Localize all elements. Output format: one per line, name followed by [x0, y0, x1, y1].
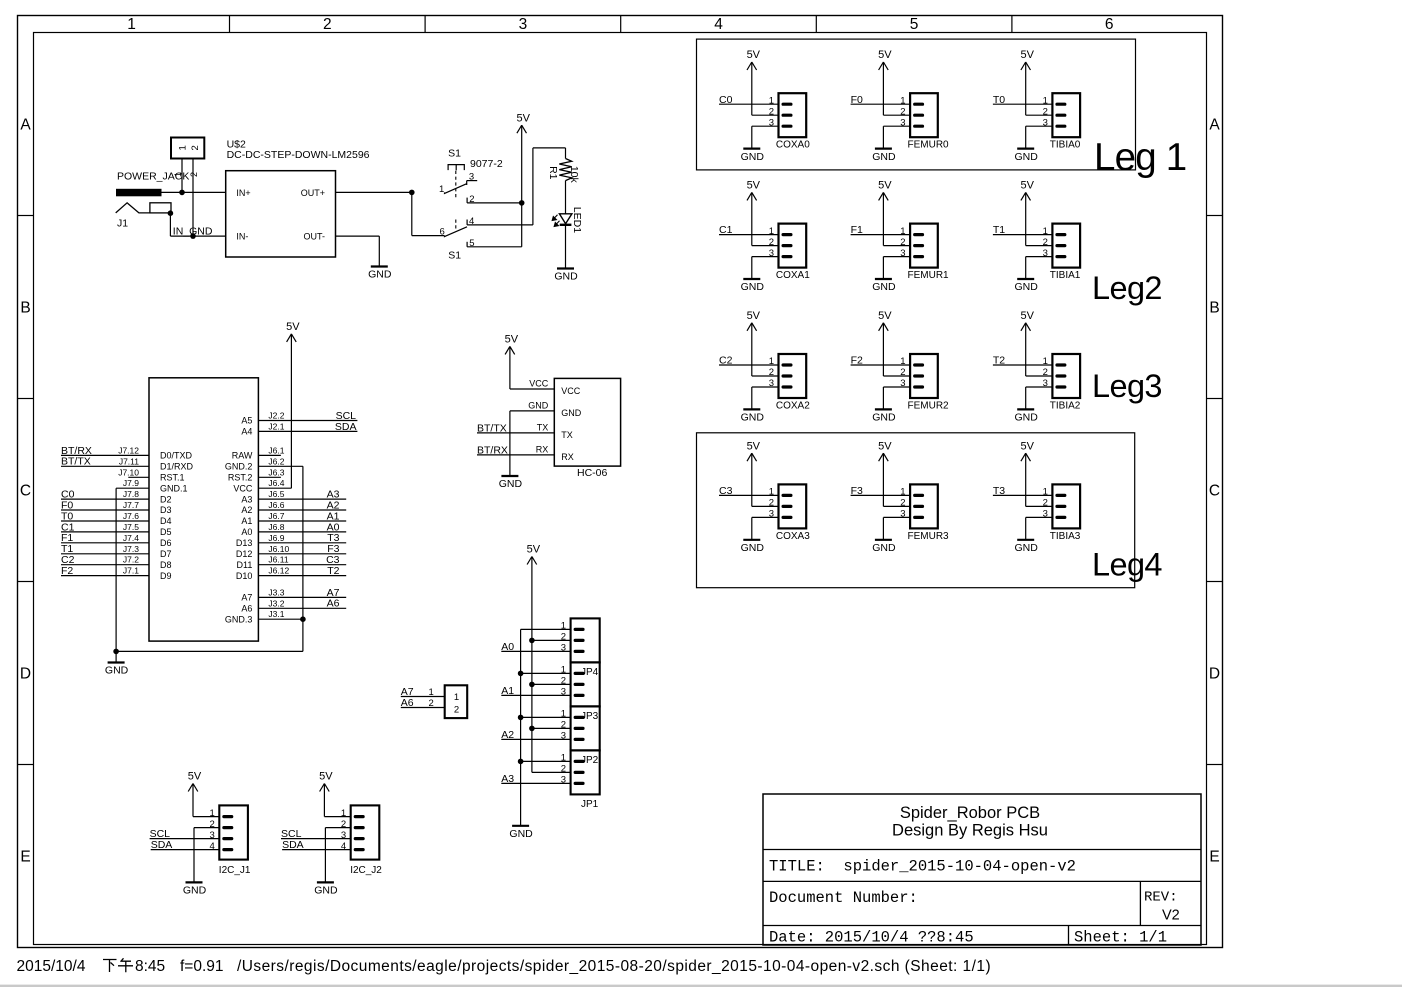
wire jack sleeve down: [169, 213, 171, 236]
svg-text:GND: GND: [1015, 151, 1039, 163]
svg-text:J7.4: J7.4: [123, 533, 139, 543]
5V power symbol: [516, 112, 530, 133]
JP ground rail: [520, 629, 522, 825]
5V power symbol: [1020, 180, 1034, 201]
svg-text:5V: 5V: [505, 334, 519, 346]
wire FEMUR3 pin3 to ground: [883, 516, 910, 518]
wire OUT+ branch down to switch pin6: [411, 192, 413, 235]
5V power symbol: [1020, 49, 1034, 70]
svg-text:SDA: SDA: [282, 839, 304, 851]
svg-text:J7.12: J7.12: [118, 445, 139, 455]
svg-text:V2: V2: [1162, 908, 1180, 924]
wire X1 pin1 to IN+ net: [181, 159, 183, 193]
wire RAW stub: [258, 454, 281, 456]
svg-text:5V: 5V: [516, 112, 530, 124]
MCU pin J6.1 (RAW): [232, 445, 285, 460]
wire A1: [258, 520, 346, 522]
svg-text:A6: A6: [401, 697, 414, 709]
wire OUT- to ground: [336, 235, 380, 237]
svg-text:Leg2: Leg2: [1092, 270, 1162, 306]
HC-06 pin GND: [528, 400, 582, 418]
svg-text:D10: D10: [236, 571, 253, 581]
MCU pin J7.12 (D0/TXD): [118, 445, 192, 460]
wire OUT+: [336, 191, 412, 193]
5V power symbol: [747, 49, 761, 70]
connector COXA2 servo header: [769, 354, 811, 412]
svg-text:F2: F2: [61, 565, 73, 577]
junction jack sleeve: [168, 210, 174, 216]
svg-text:J6.11: J6.11: [268, 555, 288, 565]
svg-text:TX: TX: [561, 430, 573, 440]
5V power symbol: [747, 440, 761, 461]
wire SCL: [258, 420, 357, 422]
wire switch pin5 to 5V rail bottom: [467, 246, 522, 248]
wire RST.1 stub: [128, 476, 149, 478]
svg-text:5V: 5V: [527, 544, 541, 556]
MCU pin J7.11 (D1/RXD): [119, 456, 194, 471]
svg-text:BT/TX: BT/TX: [61, 456, 91, 468]
MCU pin J3.3 (A7): [241, 587, 284, 602]
svg-text:2: 2: [454, 704, 459, 715]
svg-text:COXA0: COXA0: [776, 140, 810, 151]
wire IN_GND: [170, 235, 225, 237]
5V power symbol: [527, 544, 541, 565]
connector COXA3 servo header: [769, 484, 811, 542]
svg-text:J6.5: J6.5: [268, 489, 284, 499]
svg-text:S1: S1: [448, 250, 461, 262]
wire TIBIA1 pin3 to ground: [1026, 256, 1053, 258]
svg-text:5V: 5V: [878, 180, 892, 192]
connector X1 2-pin battery header: [171, 138, 204, 159]
wire BT/TX: [61, 465, 149, 467]
wire T1 to TIBIA1 pin1: [993, 234, 1053, 236]
I2C_J2 5V power: [323, 784, 325, 817]
MCU pin J7.7 (D3): [123, 500, 172, 515]
svg-text:RX: RX: [536, 444, 549, 454]
MCU pin J7.6 (D4): [123, 511, 172, 526]
wire jack tip to IN+: [162, 191, 226, 193]
svg-text:J2.1: J2.1: [268, 421, 284, 431]
wire FEMUR2 pin3 to ground: [883, 386, 910, 388]
wire FEMUR0 pin2 to 5V: [883, 114, 910, 116]
wire A3: [258, 498, 346, 500]
wire C2: [61, 564, 149, 566]
svg-text:5V: 5V: [878, 440, 892, 452]
MCU pin J6.2 (GND.2): [225, 456, 285, 471]
svg-text:F0: F0: [851, 94, 863, 106]
svg-text:5V: 5V: [188, 771, 202, 783]
svg-text:BT/TX: BT/TX: [477, 422, 507, 434]
junction MCU ground: [113, 649, 119, 655]
svg-text:9077-2: 9077-2: [470, 158, 503, 170]
wire I2C_J2 pin2 to ground: [325, 827, 350, 829]
ground: [741, 149, 765, 163]
title block: [763, 794, 1201, 947]
wire T1: [61, 553, 149, 555]
wire JP1 pin1 to ground rail: [521, 760, 571, 762]
5V power symbol: [1020, 440, 1034, 461]
MCU pin J7.8 (D2): [123, 489, 172, 504]
MCU pin J7.9 (GND.1): [123, 478, 188, 493]
svg-text:T0: T0: [993, 94, 1005, 106]
wire TIBIA1 pin2 to 5V: [1026, 245, 1053, 247]
svg-text:T1: T1: [993, 224, 1005, 236]
MCU pin J6.11 (D11): [237, 555, 289, 570]
svg-text:C0: C0: [719, 94, 733, 106]
svg-text:Leg 1: Leg 1: [1094, 136, 1186, 179]
svg-text:2: 2: [189, 172, 199, 177]
connector COXA1 servo header: [769, 224, 811, 282]
svg-text:A: A: [20, 117, 31, 134]
MCU pin J6.7 (A1): [241, 511, 284, 526]
svg-text:D13: D13: [236, 538, 253, 548]
connector JP4: [561, 618, 600, 678]
LED LED1: [552, 207, 583, 233]
connector JP3: [561, 662, 600, 722]
wire GND.1: [116, 487, 149, 489]
wire C3 to COXA3 pin1: [719, 494, 779, 496]
svg-text:5V: 5V: [747, 180, 761, 192]
svg-text:D4: D4: [160, 516, 172, 526]
5V power symbol: [286, 321, 300, 342]
5V power symbol: [319, 771, 333, 792]
svg-text:4: 4: [469, 216, 474, 227]
junction OUT+: [409, 190, 415, 196]
wire COXA2 pin3 to ground: [752, 386, 779, 388]
wire COXA1 pin3 to ground: [752, 256, 779, 258]
svg-text:5V: 5V: [747, 310, 761, 322]
svg-text:2: 2: [190, 145, 201, 150]
svg-text:5V: 5V: [878, 49, 892, 61]
5V power symbol: [878, 49, 892, 70]
svg-text:RAW: RAW: [232, 451, 253, 461]
svg-text:GND: GND: [554, 271, 578, 283]
svg-text:5V: 5V: [1020, 180, 1034, 192]
JP 5V rail: [531, 557, 533, 773]
connector JP1: [561, 750, 600, 810]
svg-text:J7.5: J7.5: [123, 522, 139, 532]
ground: [872, 409, 896, 423]
wire A2: [258, 509, 346, 511]
svg-text:SDA: SDA: [335, 421, 357, 433]
svg-text:GND: GND: [872, 151, 896, 163]
svg-text:5V: 5V: [747, 440, 761, 452]
svg-text:5V: 5V: [319, 771, 333, 783]
svg-text:Date: 2015/10/4 ??8:45: Date: 2015/10/4 ??8:45: [769, 929, 974, 947]
connector I2C_J1: [210, 805, 251, 876]
svg-text:TX: TX: [537, 422, 549, 432]
wire BT/RX: [477, 454, 554, 456]
connector FEMUR0 servo header: [900, 93, 949, 151]
ground: [1015, 540, 1039, 554]
COXA2 5V power: [751, 323, 753, 376]
wire JP4 pin2 to 5V: [532, 639, 571, 641]
svg-text:D1/RXD: D1/RXD: [160, 462, 194, 472]
wire TIBIA3 pin3 to ground: [1026, 516, 1053, 518]
module HC-06 bluetooth: [554, 378, 620, 466]
Leg 1 group box: [697, 39, 1136, 170]
connector FEMUR1 servo header: [900, 224, 949, 282]
wire A7: [258, 596, 346, 598]
svg-text:GND: GND: [741, 412, 765, 424]
wire A2: [501, 738, 570, 740]
I2C_J1 5V power: [192, 784, 194, 817]
TIBIA0 5V power: [1025, 62, 1027, 115]
wire VCC to 5V: [258, 487, 291, 489]
wire TIBIA0 pin2 to 5V: [1026, 114, 1053, 116]
MCU pin J6.4 (VCC): [233, 478, 284, 493]
svg-text:COXA3: COXA3: [776, 531, 810, 542]
wire R1 top: [565, 148, 567, 159]
wire RST.2 stub: [258, 476, 281, 478]
svg-text:J3.3: J3.3: [268, 587, 284, 597]
svg-text:J6.10: J6.10: [268, 544, 289, 554]
svg-text:J6.3: J6.3: [268, 467, 284, 477]
MCU pin J7.5 (D5): [123, 522, 172, 537]
svg-text:A4: A4: [241, 427, 252, 437]
svg-text:I2C_J1: I2C_J1: [219, 865, 251, 876]
svg-text:FEMUR1: FEMUR1: [908, 270, 950, 281]
svg-text:FEMUR3: FEMUR3: [908, 531, 950, 542]
svg-text:5V: 5V: [1020, 440, 1034, 452]
wire JP2 pin1 to ground rail: [521, 716, 571, 718]
MCU pin J6.6 (A2): [241, 500, 284, 515]
wire C2 to COXA2 pin1: [719, 364, 779, 366]
connector TIBIA0 servo header: [1043, 93, 1081, 151]
MCU pin J6.3 (RST.2): [228, 467, 285, 482]
svg-text:TIBIA1: TIBIA1: [1050, 270, 1081, 281]
wire FEMUR2 pin2 to 5V: [883, 375, 910, 377]
svg-text:A1: A1: [501, 685, 514, 697]
MCU pin J6.9 (D13): [236, 533, 285, 548]
TIBIA2 5V power: [1025, 323, 1027, 376]
svg-text:A0: A0: [241, 527, 252, 537]
svg-text:D3: D3: [160, 505, 172, 515]
connector TIBIA3 servo header: [1043, 484, 1081, 542]
connector COXA0 servo header: [769, 93, 811, 151]
wire COXA2 pin2 to 5V: [752, 375, 779, 377]
svg-text:6: 6: [1105, 16, 1114, 33]
wire A6: [401, 707, 445, 709]
svg-text:J6.1: J6.1: [268, 445, 284, 455]
svg-text:A7: A7: [241, 593, 252, 603]
svg-text:GND.1: GND.1: [160, 483, 188, 493]
svg-text:2: 2: [469, 194, 474, 205]
TIBIA3 5V power: [1025, 453, 1027, 506]
ground: [1015, 409, 1039, 423]
wire F2 to FEMUR2 pin1: [851, 364, 911, 366]
svg-text:J6.7: J6.7: [268, 511, 284, 521]
connector JP5 (A7/A6 header): [429, 685, 468, 718]
wire A6: [258, 607, 346, 609]
wire C0 to COXA0 pin1: [719, 103, 779, 105]
svg-text:T2: T2: [993, 355, 1005, 367]
J1 pin number 1 (rotated): [173, 172, 183, 177]
MCU module U1 (pro-mini headers J7/J6/J2/J3): [149, 378, 258, 641]
svg-text:C1: C1: [719, 224, 733, 236]
svg-text:1: 1: [127, 16, 136, 33]
svg-text:COXA1: COXA1: [776, 270, 810, 281]
wire TIBIA3 pin2 to 5V: [1026, 505, 1053, 507]
ground: [741, 540, 765, 554]
svg-text:J7.2: J7.2: [123, 555, 139, 565]
wire SCL to I2C_J1: [150, 838, 220, 840]
5V power symbol: [878, 440, 892, 461]
footer status line: [17, 958, 992, 975]
wire JP3 pin2 to 5V: [532, 683, 571, 685]
svg-text:1: 1: [454, 692, 459, 703]
svg-text:I2C_J2: I2C_J2: [350, 865, 382, 876]
FEMUR0 5V power: [882, 62, 884, 115]
wire HC-06 GND: [510, 410, 554, 412]
svg-text:4: 4: [714, 16, 723, 33]
svg-text:GND: GND: [509, 828, 533, 840]
COXA3 5V power: [751, 453, 753, 506]
wire T0 to TIBIA0 pin1: [993, 103, 1053, 105]
svg-text:5: 5: [469, 238, 474, 249]
5V power symbol: [188, 771, 202, 792]
svg-text:B: B: [1209, 300, 1219, 317]
svg-text:GND: GND: [105, 665, 129, 677]
svg-text:A2: A2: [241, 505, 252, 515]
svg-text:J6.6: J6.6: [268, 500, 284, 510]
TIBIA1 5V power: [1025, 192, 1027, 245]
svg-text:Leg3: Leg3: [1092, 368, 1162, 404]
wire T3: [258, 542, 346, 544]
svg-text:J6.8: J6.8: [268, 522, 284, 532]
wire F3: [258, 553, 346, 555]
wire C1: [61, 531, 149, 533]
svg-text:JP1: JP1: [581, 799, 599, 810]
MCU pin J6.5 (A3): [241, 489, 284, 504]
svg-text:D5: D5: [160, 527, 172, 537]
MCU pin J7.4 (D6): [123, 533, 172, 548]
wire F1: [61, 542, 149, 544]
svg-text:5: 5: [910, 16, 919, 33]
wire COXA0 pin3 to ground: [752, 125, 779, 127]
svg-text:R1: R1: [547, 166, 559, 180]
svg-text:TIBIA2: TIBIA2: [1050, 401, 1081, 412]
ground: [1015, 279, 1039, 293]
svg-text:GND: GND: [314, 885, 338, 897]
svg-text:J3.2: J3.2: [268, 598, 284, 608]
5V rail at switch: [521, 125, 523, 247]
junction GND.3: [300, 616, 306, 622]
wire T3 to TIBIA3 pin1: [993, 494, 1053, 496]
wire SDA to I2C_J1: [151, 849, 220, 851]
svg-text:F3: F3: [851, 485, 863, 497]
svg-text:FEMUR2: FEMUR2: [908, 401, 950, 412]
svg-text:GND: GND: [741, 281, 765, 293]
MCU pin J7.2 (D8): [123, 555, 172, 570]
svg-text:SDA: SDA: [151, 839, 173, 851]
svg-text:Spider_Robor PCB: Spider_Robor PCB: [900, 804, 1040, 822]
ground: [872, 149, 896, 163]
connector FEMUR2 servo header: [900, 354, 949, 412]
svg-text:D6: D6: [160, 538, 172, 548]
svg-text:TITLE: spider_2015-10-04-open: TITLE: spider_2015-10-04-open-v2: [769, 858, 1076, 876]
MCU pin J6.12 (D10): [236, 566, 290, 581]
wire BT/TX: [477, 432, 554, 434]
svg-text:Sheet: 1/1: Sheet: 1/1: [1074, 929, 1167, 947]
svg-text:A6: A6: [241, 604, 252, 614]
svg-text:J7.11: J7.11: [119, 456, 139, 466]
svg-text:C: C: [20, 483, 31, 500]
svg-text:5V: 5V: [747, 49, 761, 61]
svg-text:T3: T3: [993, 485, 1005, 497]
wire C1 to COXA1 pin1: [719, 234, 779, 236]
svg-text:RST.1: RST.1: [160, 473, 185, 483]
svg-text:5V: 5V: [878, 310, 892, 322]
wire A7: [401, 696, 445, 698]
wire X1 pin2 to IN_GND net: [192, 159, 194, 237]
svg-text:LED1: LED1: [571, 207, 583, 233]
wire JP3 pin1 to ground rail: [521, 672, 571, 674]
HC-06 pin RX: [536, 444, 574, 462]
svg-text:A6: A6: [327, 598, 340, 610]
svg-text:D: D: [1209, 666, 1220, 683]
wire F3 to FEMUR3 pin1: [851, 494, 911, 496]
svg-text:GND: GND: [872, 281, 896, 293]
svg-text:A2: A2: [501, 729, 514, 741]
wire TIBIA2 pin2 to 5V: [1026, 375, 1053, 377]
FEMUR1 5V power: [882, 192, 884, 245]
svg-text:F1: F1: [851, 224, 863, 236]
ground: [183, 882, 207, 896]
ground: [368, 267, 392, 281]
svg-text:D2: D2: [160, 494, 172, 504]
svg-text:E: E: [20, 849, 30, 866]
wire MCU ground bus: [116, 650, 303, 652]
svg-text:TIBIA0: TIBIA0: [1050, 140, 1081, 151]
svg-text:10k: 10k: [568, 166, 580, 184]
svg-text:J7.10: J7.10: [118, 467, 139, 477]
svg-text:VCC: VCC: [233, 483, 253, 493]
HC-06 pin TX: [537, 422, 573, 440]
svg-text:GND: GND: [561, 408, 582, 418]
svg-text:S1: S1: [448, 148, 461, 160]
5V power symbol: [747, 180, 761, 201]
wire COXA0 pin2 to 5V: [752, 114, 779, 116]
svg-text:VCC: VCC: [529, 378, 549, 388]
wire TIBIA0 pin3 to ground: [1026, 125, 1053, 127]
svg-text:J6.12: J6.12: [268, 566, 289, 576]
svg-text:J2.2: J2.2: [268, 411, 284, 421]
ground: [499, 476, 523, 490]
MCU pin J3.2 (A6): [241, 598, 284, 613]
ground: [314, 882, 338, 896]
svg-text:5V: 5V: [286, 321, 300, 333]
wire BT/RX: [61, 454, 149, 456]
wire F1 to FEMUR1 pin1: [851, 234, 911, 236]
wire A0: [258, 531, 346, 533]
svg-text:C: C: [1209, 483, 1220, 500]
ground: [741, 409, 765, 423]
svg-text:2015/10/4: 2015/10/4: [17, 958, 86, 975]
svg-text:2: 2: [323, 16, 332, 33]
resistor R1 10k: [547, 159, 580, 184]
wire FEMUR3 pin2 to 5V: [883, 505, 910, 507]
wire F0: [61, 509, 149, 511]
MCU pin J6.8 (A0): [241, 522, 284, 537]
svg-text:HC-06: HC-06: [577, 467, 608, 479]
wire GND.3: [258, 618, 303, 620]
svg-text:J7.1: J7.1: [123, 566, 139, 576]
svg-text:D12: D12: [236, 549, 253, 559]
svg-text:IN+: IN+: [236, 188, 250, 198]
MCU pin J7.3 (D7): [123, 544, 172, 559]
svg-text:5V: 5V: [1020, 49, 1034, 61]
